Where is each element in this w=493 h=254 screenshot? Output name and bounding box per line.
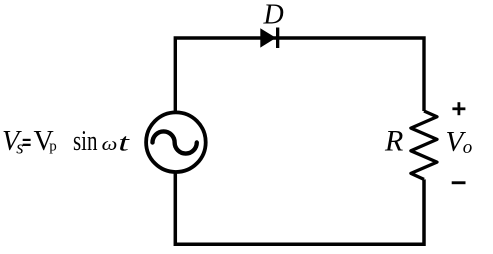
- source label group: [2, 126, 130, 159]
- resistor R zigzag: [411, 111, 437, 179]
- svg-text:t: t: [118, 128, 130, 156]
- diode D triangle (anode): [260, 28, 276, 47]
- label + horizontal bar: [452, 107, 465, 110]
- wire: left riser top + top rail + right riser: [175, 38, 424, 112]
- wire: left riser bottom + bottom rail + right riser bottom: [175, 173, 424, 244]
- svg-text:s: s: [16, 138, 23, 159]
- label minus bar: [452, 181, 466, 184]
- label + vertical bar: [458, 102, 461, 115]
- equals top bar: [23, 139, 31, 141]
- diode D cathode bar: [276, 28, 279, 49]
- AC source sine symbol: [153, 131, 197, 153]
- AC source V1 circle: [146, 112, 206, 172]
- svg-text:p: p: [49, 139, 57, 155]
- svg-text:sin: sin: [73, 126, 98, 157]
- svg-text:o: o: [463, 137, 473, 158]
- equals bottom bar: [23, 144, 31, 146]
- svg-text:ω: ω: [102, 135, 118, 155]
- svg-text:D: D: [263, 0, 284, 31]
- svg-text:R: R: [384, 125, 403, 158]
